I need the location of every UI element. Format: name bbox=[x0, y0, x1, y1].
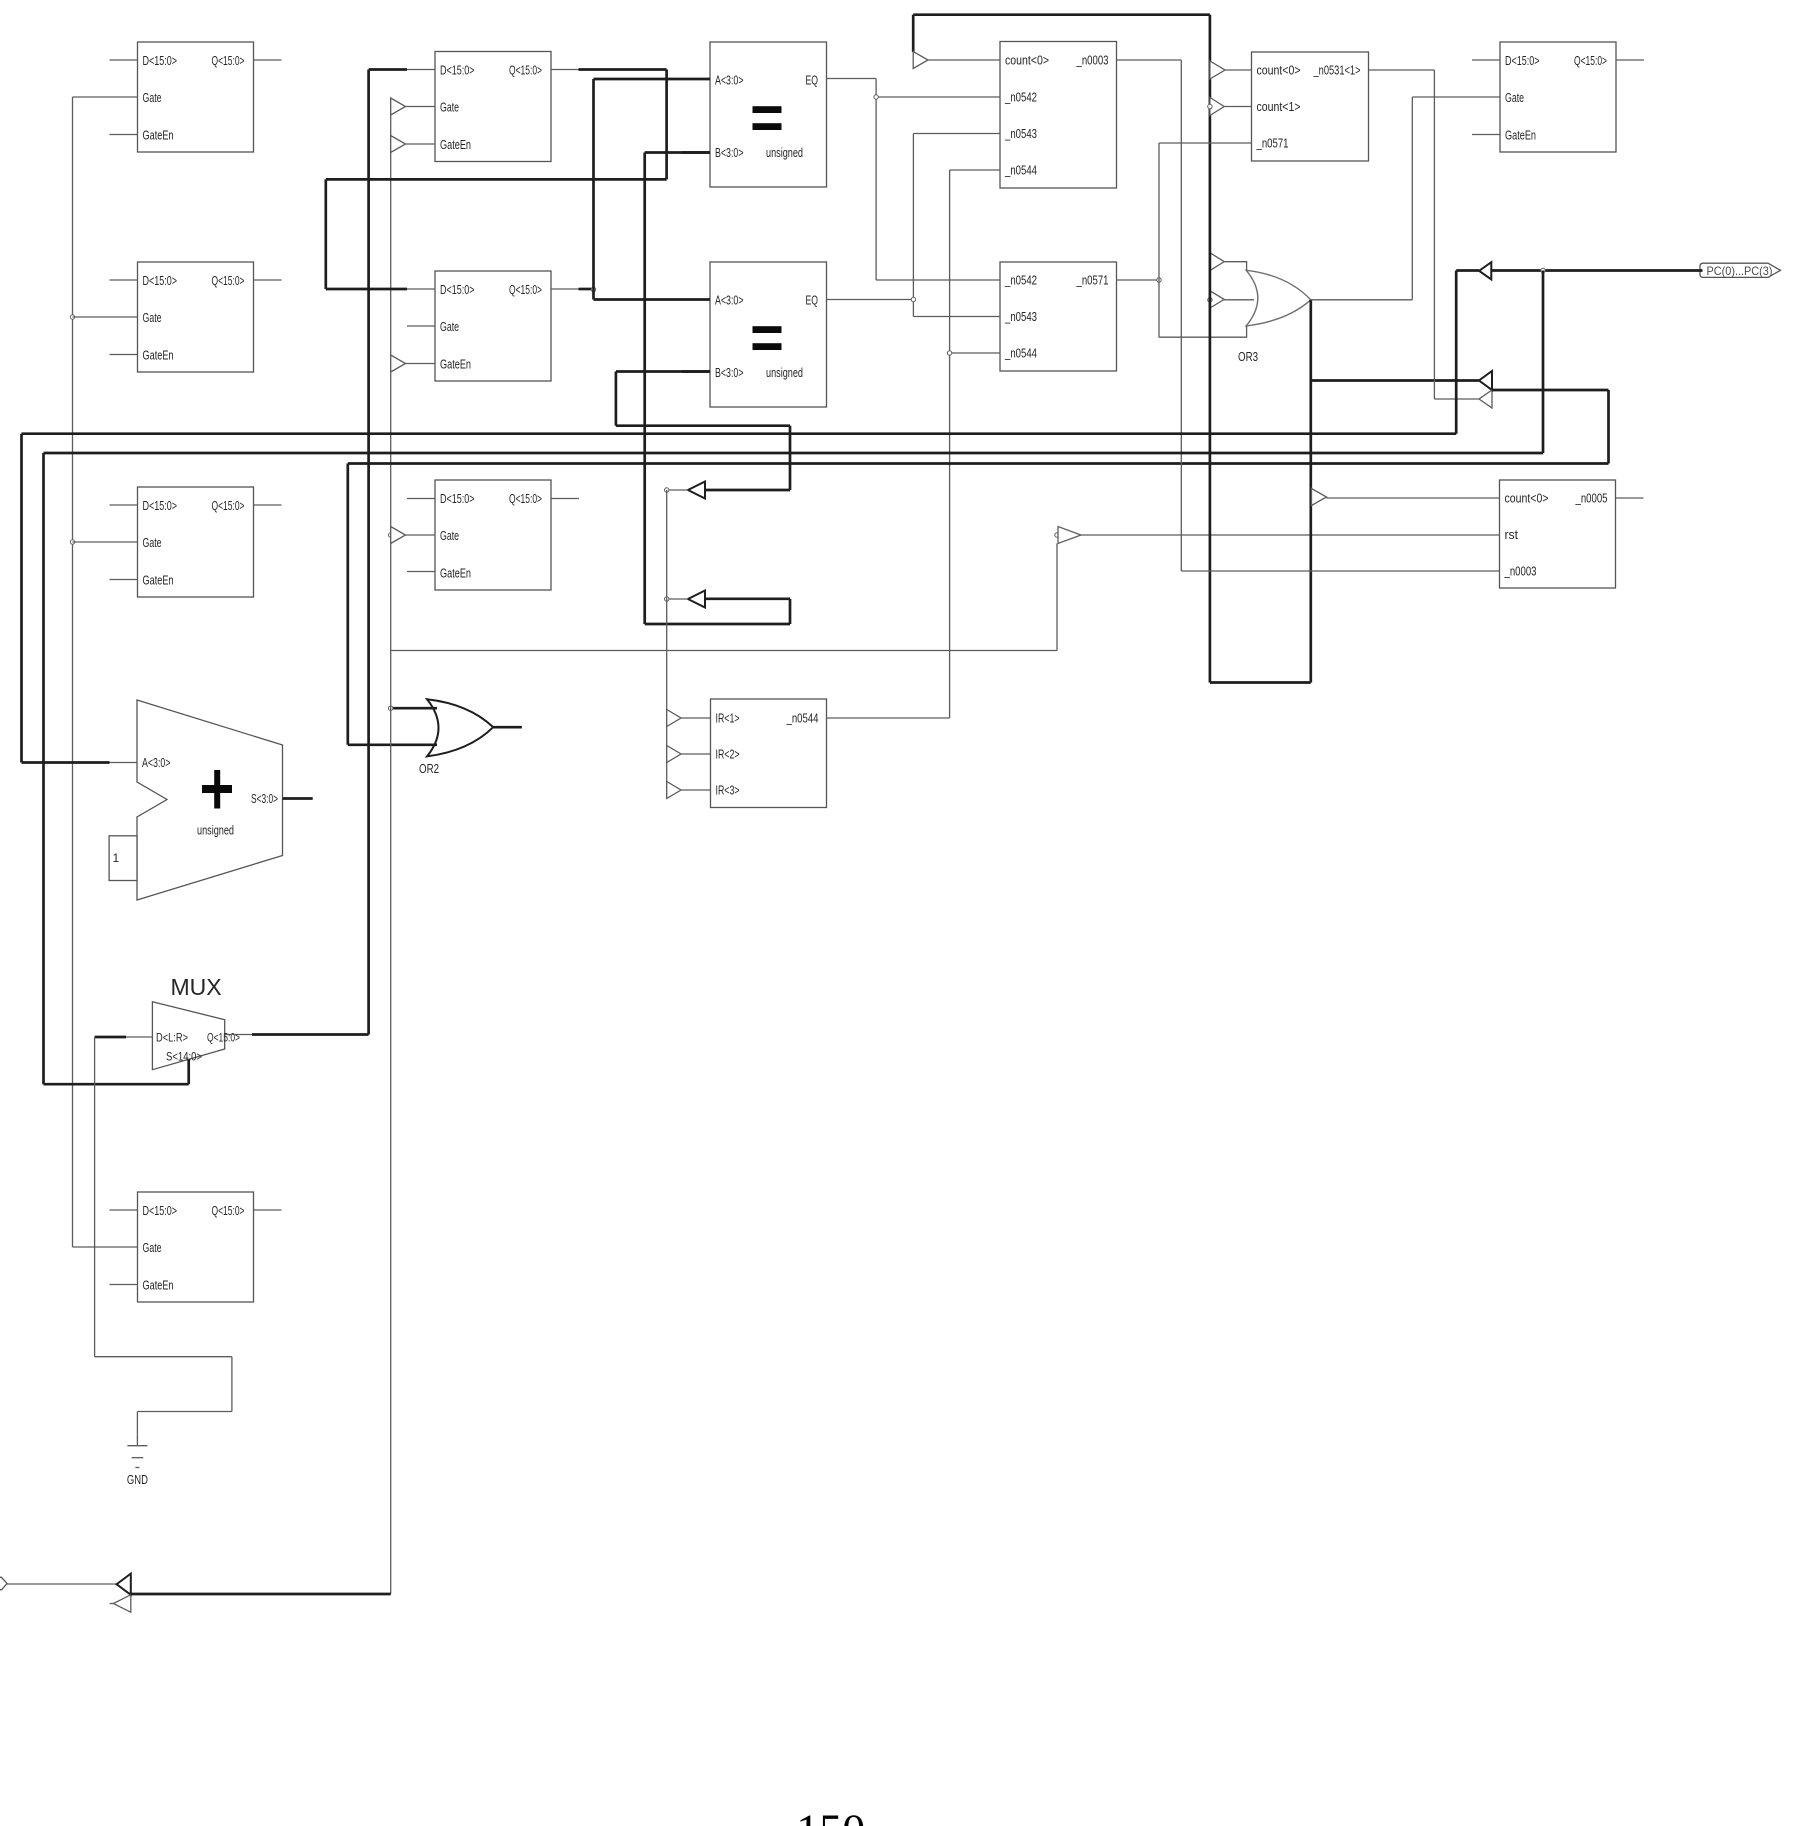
svg-text:GND: GND bbox=[127, 1472, 148, 1487]
svg-text:Gate: Gate bbox=[440, 100, 459, 115]
svg-text:Gate: Gate bbox=[143, 535, 162, 550]
wire to C3 count<1> bbox=[1224, 106, 1251, 108]
svg-text:A<3:0>: A<3:0> bbox=[715, 73, 744, 88]
wire gateen-net vertical trunk x390 bbox=[390, 98, 392, 1594]
svg-text:D<15:0>: D<15:0> bbox=[440, 282, 475, 297]
svg-text:Gate: Gate bbox=[440, 528, 459, 543]
svg-text:GateEn: GateEn bbox=[440, 566, 471, 581]
wire to C4 count<0> bbox=[1327, 497, 1500, 499]
svg-text:S<3:0>: S<3:0> bbox=[251, 791, 278, 806]
wire net _n0544 bbox=[827, 170, 1001, 718]
svg-text:Q<15:0>: Q<15:0> bbox=[207, 1031, 240, 1045]
svg-text:D<15:0>: D<15:0> bbox=[440, 63, 475, 78]
junction OR2 input top bbox=[389, 706, 393, 710]
svg-text:_n0005: _n0005 bbox=[1575, 491, 1608, 506]
junction _n0571 bbox=[1157, 278, 1161, 282]
wire to IR<3> bbox=[681, 789, 711, 791]
counter C3 (-> _n0531<1>) bbox=[1252, 52, 1369, 161]
svg-text:_n0543: _n0543 bbox=[1004, 309, 1037, 324]
svg-text:unsigned: unsigned bbox=[766, 365, 803, 380]
wire net fb vertical x1310 bbox=[1309, 300, 1312, 683]
buffer IR<3> triangle bbox=[667, 782, 681, 799]
wire adder A pin stub bbox=[110, 762, 138, 764]
wire to IR<2> bbox=[681, 753, 711, 755]
comparator EQ1 (unsigned =) bbox=[710, 42, 827, 187]
svg-text:Q<15:0>: Q<15:0> bbox=[509, 491, 542, 506]
junction _n0543 at EQ2 out bbox=[911, 297, 915, 301]
wire to C3 count<0> bbox=[1225, 69, 1252, 71]
ground GND bbox=[127, 1435, 148, 1487]
wire net _n0531 bbox=[1369, 70, 1480, 399]
wire OR2 output bbox=[493, 726, 522, 729]
svg-text:_n0571: _n0571 bbox=[1256, 136, 1289, 151]
svg-text:count<0>: count<0> bbox=[1005, 53, 1049, 68]
buffer C3 count<0> triangle bbox=[1210, 61, 1225, 79]
svg-text:unsigned: unsigned bbox=[766, 145, 803, 160]
port PC(0)...PC(3) output flag bbox=[1700, 263, 1781, 278]
wire net _n0003 bbox=[1117, 60, 1500, 571]
svg-text:Gate: Gate bbox=[143, 90, 162, 105]
wire gate-net to U_PC3 Gate bbox=[73, 1246, 138, 1248]
wire C2 out to junction bbox=[1117, 279, 1160, 281]
svg-text:Gate: Gate bbox=[143, 1240, 162, 1255]
svg-text:IR<2>: IR<2> bbox=[716, 747, 740, 762]
svg-text:Q<15:0>: Q<15:0> bbox=[509, 282, 542, 297]
svg-text:MUX: MUX bbox=[170, 974, 221, 1000]
buffer U_T0 Gate triangle bbox=[391, 98, 406, 115]
svg-text:Q<15:0>: Q<15:0> bbox=[212, 498, 245, 513]
or-gate OR2 bbox=[419, 699, 493, 776]
svg-text:EQ: EQ bbox=[806, 73, 819, 88]
buffer pair lower right triangle bbox=[1479, 390, 1492, 408]
wire t1 apex to ir-net bbox=[667, 489, 688, 491]
wire net PC flag wire bbox=[1491, 269, 1702, 272]
buffer C3 count<1> triangle bbox=[1210, 98, 1224, 116]
wire net q6 to junction bbox=[579, 288, 594, 291]
svg-text:Gate: Gate bbox=[1505, 90, 1524, 105]
wire gateen-net branch to rst buffer bbox=[391, 544, 1057, 651]
svg-text:OR2: OR2 bbox=[419, 761, 439, 776]
svg-text:Q<15:0>: Q<15:0> bbox=[212, 53, 245, 68]
wire net PC to west trunk bbox=[22, 271, 1480, 763]
wire OR3 input-3 (from _n0571, step) bbox=[1159, 326, 1247, 337]
or-gate OR3 bbox=[1238, 270, 1311, 364]
latch U_T0 (mid col 1) bbox=[435, 52, 551, 162]
wire net n3 horizontal y463 bbox=[348, 462, 1609, 465]
buffer C4 count<0> triangle bbox=[1312, 489, 1327, 506]
wire net _n0571 vertical bbox=[1158, 143, 1160, 337]
wire net eqA to EQ2 A bbox=[594, 298, 711, 301]
buffer OR3 input-1 triangle bbox=[1210, 253, 1224, 271]
latch U_PC1 (left col 2) bbox=[110, 262, 282, 372]
svg-text:D<15:0>: D<15:0> bbox=[143, 53, 178, 68]
svg-text:_n0544: _n0544 bbox=[1004, 163, 1037, 178]
wire net muxq vertical x368 bbox=[367, 70, 370, 1035]
wire EQ1 B stub bbox=[682, 151, 710, 154]
wire net ir vertical x666 bbox=[666, 490, 668, 799]
wire OR2 input bottom bbox=[348, 743, 437, 746]
svg-text:Q<15:0>: Q<15:0> bbox=[1574, 53, 1607, 68]
junction gateen-net at U_T2 Gate bbox=[389, 533, 393, 537]
svg-text:GateEn: GateEn bbox=[143, 573, 174, 588]
wire EQ2 B stub bbox=[682, 370, 710, 373]
wire to IR<1> bbox=[681, 717, 711, 719]
svg-text:D<15:0>: D<15:0> bbox=[143, 498, 178, 513]
wire OR3 input-2 bbox=[1224, 299, 1254, 301]
wire net eqA vertical x594 bbox=[592, 79, 595, 300]
svg-text:IR<3>: IR<3> bbox=[716, 783, 740, 798]
svg-text:GateEn: GateEn bbox=[440, 357, 471, 372]
junction t1 apex on ir-net bbox=[665, 488, 669, 492]
buffer t4 left triangle bbox=[113, 1595, 130, 1612]
page number 150 bbox=[796, 1805, 865, 1826]
wire net gnd path bbox=[95, 1037, 232, 1435]
svg-text:D<15:0>: D<15:0> bbox=[440, 491, 475, 506]
svg-text:GateEn: GateEn bbox=[1505, 128, 1536, 143]
buffer rst triangle bbox=[1058, 527, 1081, 544]
buffer OR3 input-2 triangle bbox=[1210, 291, 1224, 308]
counter C4 (-> _n0005) bbox=[1500, 480, 1616, 588]
wire C4 _n0005 output stub bbox=[1616, 497, 1644, 499]
wire to U_T0 Gate bbox=[406, 106, 436, 108]
adder ADD (unsigned +) bbox=[137, 700, 283, 900]
gate U_IR (IR<1..3> -> _n0544) bbox=[711, 699, 827, 808]
wire U_T1 D stub bbox=[407, 288, 435, 290]
junction q6 net bbox=[591, 287, 595, 291]
wire buffer pair base to n3 bbox=[1492, 390, 1609, 464]
svg-text:D<15:0>: D<15:0> bbox=[143, 1203, 178, 1218]
buffer C1 count<0> triangle bbox=[913, 52, 928, 69]
svg-text:D<15:0>: D<15:0> bbox=[1505, 53, 1540, 68]
buffer U_T2 Gate triangle bbox=[391, 527, 406, 544]
buffer IR<2> triangle bbox=[667, 746, 681, 763]
wire MUX Q output bbox=[225, 1034, 369, 1036]
latch U_PC3 (left col 4) bbox=[110, 1192, 282, 1302]
wire adder S output stub bbox=[283, 797, 313, 800]
wire gate-net to U_PC0 Gate bbox=[73, 96, 138, 98]
buffer t1 left triangle bbox=[688, 482, 705, 499]
wire net fb top loop bbox=[913, 15, 1210, 52]
svg-text:D<15:0>: D<15:0> bbox=[143, 273, 178, 288]
wire net _n0543 bbox=[827, 134, 1001, 317]
svg-text:S<14:0>: S<14:0> bbox=[166, 1050, 202, 1064]
wire rst to C4 bbox=[1081, 534, 1500, 536]
wire input flag to t3 bbox=[7, 1583, 117, 1585]
wire net _n0571 to C3 bbox=[1159, 142, 1252, 144]
svg-text:count<0>: count<0> bbox=[1257, 63, 1301, 78]
svg-text:_n0543: _n0543 bbox=[1004, 126, 1037, 141]
latch U_T2 (mid col 3) bbox=[407, 480, 579, 590]
svg-text:Q<15:0>: Q<15:0> bbox=[212, 273, 245, 288]
wire net fb trunk x1209 bbox=[1209, 15, 1212, 683]
svg-text:IR<1>: IR<1> bbox=[716, 711, 740, 726]
wire net muxq to U_T0 D bbox=[369, 68, 435, 71]
svg-text:rst: rst bbox=[1505, 527, 1519, 542]
latch U_T1 (mid col 2) bbox=[407, 271, 551, 381]
wire to U_T1 GateEn bbox=[406, 363, 436, 365]
wire net PC branch to MUX S bbox=[44, 271, 1544, 1085]
counter C1 (count<0> -> _n0003) bbox=[1000, 42, 1117, 189]
junction t2 apex on ir-net bbox=[665, 597, 669, 601]
svg-text:B<3:0>: B<3:0> bbox=[715, 365, 744, 380]
svg-text:count<0>: count<0> bbox=[1505, 491, 1549, 506]
buffer pair upper right triangle bbox=[1479, 371, 1492, 390]
wire to U_T2 Gate bbox=[406, 534, 436, 536]
junction PC at x1543 bbox=[1541, 268, 1545, 272]
svg-text:PC(0)...PC(3): PC(0)...PC(3) bbox=[1707, 264, 1773, 278]
mux MUX bbox=[152, 974, 240, 1070]
svg-text:_n0571: _n0571 bbox=[1076, 273, 1109, 288]
wire U_T1 Q stub bbox=[551, 288, 579, 290]
svg-text:EQ: EQ bbox=[806, 293, 819, 308]
svg-text:_n0542: _n0542 bbox=[1004, 273, 1037, 288]
wire OR3 input-1 (step) bbox=[1224, 262, 1246, 271]
svg-text:OR3: OR3 bbox=[1238, 349, 1258, 364]
svg-text:GateEn: GateEn bbox=[440, 137, 471, 152]
svg-text:Q<15:0>: Q<15:0> bbox=[212, 1203, 245, 1218]
svg-text:_n0003: _n0003 bbox=[1504, 564, 1537, 579]
svg-text:count<1>: count<1> bbox=[1257, 99, 1301, 114]
buffer t3 left triangle bbox=[117, 1574, 131, 1595]
wire gate-net to U_PC1 Gate bbox=[73, 316, 138, 318]
port input flag (left edge) bbox=[0, 1577, 7, 1590]
svg-text:Gate: Gate bbox=[143, 310, 162, 325]
wire net q5 loop bbox=[326, 70, 667, 290]
svg-text:unsigned: unsigned bbox=[197, 823, 234, 838]
svg-text:Gate: Gate bbox=[440, 319, 459, 334]
junction rst buffer base bbox=[1055, 533, 1059, 537]
wire t2 apex to ir-net bbox=[667, 598, 688, 600]
wire gate-net to U_PC2 Gate bbox=[73, 541, 138, 543]
junction gate-net at U_PC1 Gate bbox=[70, 315, 74, 319]
junction _n0544 at C2 bbox=[947, 351, 951, 355]
wire net n3 riser x347 bbox=[346, 464, 349, 745]
wire net eq2b bbox=[616, 372, 790, 491]
svg-text:A<3:0>: A<3:0> bbox=[142, 755, 171, 770]
junction gate-net at U_PC2 Gate bbox=[70, 540, 74, 544]
buffer IR<1> triangle bbox=[667, 710, 681, 727]
svg-text:B<3:0>: B<3:0> bbox=[715, 145, 744, 160]
buffer U_T0 GateEn triangle bbox=[391, 136, 406, 153]
wire net fb U bottom bbox=[1210, 681, 1311, 684]
wire t4 apex stub bbox=[110, 1603, 114, 1605]
svg-text:GateEn: GateEn bbox=[143, 348, 174, 363]
wire net fb branch y380 bbox=[1311, 379, 1479, 382]
buffer U_T1 GateEn triangle bbox=[391, 355, 406, 372]
wire net eq1b bbox=[645, 153, 790, 625]
svg-text:_n0531<1>: _n0531<1> bbox=[1313, 63, 1361, 78]
constant 1 box bbox=[109, 836, 137, 881]
wire U_T0 Q stub bbox=[551, 69, 579, 71]
latch U_PC0 (left col 1) bbox=[110, 42, 282, 152]
svg-text:A<3:0>: A<3:0> bbox=[715, 293, 744, 308]
wire net eqA to EQ1 A bbox=[594, 78, 711, 81]
svg-text:D<L:R>: D<L:R> bbox=[156, 1031, 188, 1045]
wire to U_T0 GateEn bbox=[406, 143, 436, 145]
comparator EQ2 (unsigned =) bbox=[710, 262, 827, 407]
wire net bottom thick y1594 bbox=[131, 1593, 391, 1596]
junction _n0542 at C1 bbox=[874, 95, 878, 99]
svg-text:1: 1 bbox=[113, 851, 120, 865]
latch U_R0 (top right) bbox=[1472, 42, 1644, 152]
svg-text:_n0544: _n0544 bbox=[786, 711, 819, 726]
junction OR3 input-2 on trunk bbox=[1208, 298, 1212, 302]
svg-text:150: 150 bbox=[796, 1805, 865, 1826]
svg-text:_n0544: _n0544 bbox=[1004, 346, 1037, 361]
wire net or3out to U_R0 Gate bbox=[1311, 97, 1500, 300]
wire OR2 input top (from gate-net trunk) bbox=[391, 707, 437, 710]
latch U_PC2 (left col 3) bbox=[110, 487, 282, 597]
counter C2 (-> _n0571) bbox=[1000, 262, 1117, 371]
svg-text:GateEn: GateEn bbox=[143, 1278, 174, 1293]
wire to C1 count<0> bbox=[928, 59, 1000, 61]
buffer PC left triangle bbox=[1479, 262, 1491, 279]
buffer t2 left triangle bbox=[688, 591, 705, 608]
wire MUX D input bbox=[95, 1036, 153, 1038]
wire gate-net vertical trunk x72 bbox=[72, 97, 74, 1247]
svg-text:_n0003: _n0003 bbox=[1076, 53, 1109, 68]
svg-text:_n0542: _n0542 bbox=[1004, 90, 1037, 105]
wire net _n0542 bbox=[827, 79, 1001, 281]
junction C3 count<1> on trunk bbox=[1208, 104, 1212, 108]
svg-text:Q<15:0>: Q<15:0> bbox=[509, 63, 542, 78]
svg-text:GateEn: GateEn bbox=[143, 128, 174, 143]
